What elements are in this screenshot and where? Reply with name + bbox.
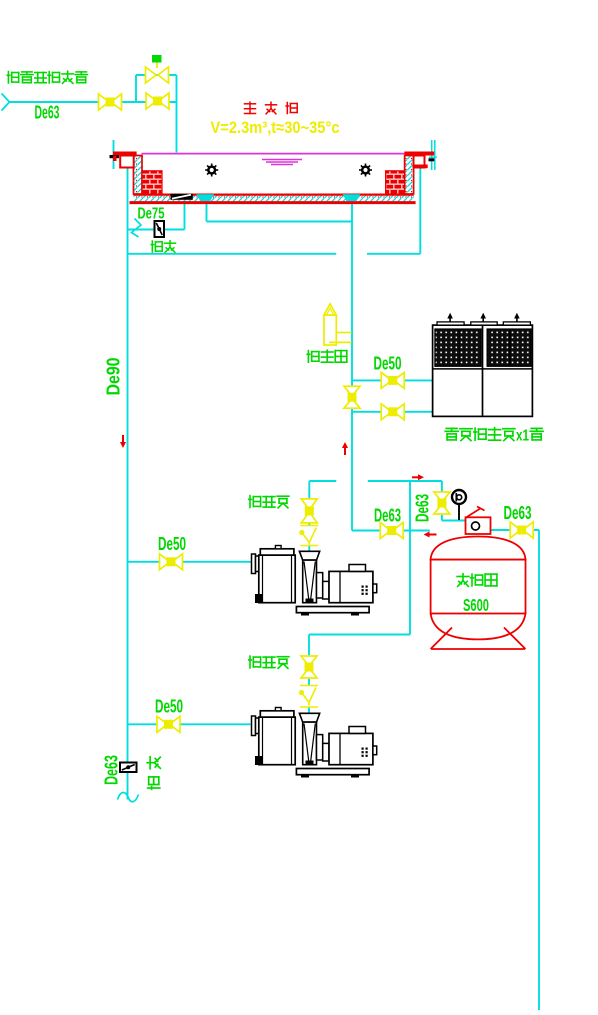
svg-text:S600: S600 [463,595,489,615]
svg-text:De63: De63 [102,755,122,785]
svg-text:De63: De63 [413,494,433,522]
svg-text:De63: De63 [504,503,532,523]
svg-text:De50: De50 [155,697,183,717]
svg-text:De75: De75 [138,205,165,222]
svg-text:De63: De63 [35,102,60,122]
svg-text:De63: De63 [374,506,401,526]
svg-text:De50: De50 [158,534,186,554]
svg-text:De90: De90 [104,358,124,396]
svg-text:V=2.3m³,t≈30~35°c: V=2.3m³,t≈30~35°c [211,118,340,137]
svg-text:x1: x1 [516,428,529,445]
svg-text:De50: De50 [374,353,402,373]
